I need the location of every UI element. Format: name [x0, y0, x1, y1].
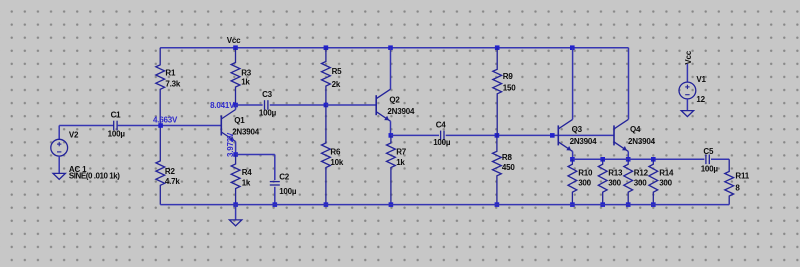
- svg-text:2k: 2k: [332, 80, 341, 89]
- svg-text:2N3904: 2N3904: [628, 137, 656, 146]
- junction: [651, 157, 656, 162]
- svg-text:C1: C1: [111, 111, 122, 120]
- svg-text:12: 12: [696, 95, 705, 104]
- svg-text:300: 300: [659, 179, 672, 188]
- svg-text:R4: R4: [242, 168, 253, 177]
- svg-text:C2: C2: [279, 173, 290, 182]
- svg-text:C3: C3: [262, 90, 273, 99]
- node D: [389, 133, 394, 138]
- junction: [626, 202, 631, 207]
- svg-text:SINE(0 .010 1k): SINE(0 .010 1k): [69, 171, 120, 180]
- resistor R12: [624, 159, 649, 204]
- wire: [58, 126, 60, 140]
- svg-text:100µ: 100µ: [108, 129, 126, 138]
- junction: [600, 157, 605, 162]
- capacitor C5: [701, 147, 719, 174]
- svg-text:2N3904: 2N3904: [232, 127, 260, 136]
- node C (emitter Q1): [233, 152, 238, 157]
- wire: [236, 154, 275, 156]
- junction: [324, 103, 329, 108]
- resistor R9: [493, 48, 516, 136]
- wire Vcc rail: [160, 47, 628, 49]
- svg-text:Vcc: Vcc: [227, 36, 241, 45]
- svg-text:R2: R2: [165, 167, 176, 176]
- wire: [274, 155, 276, 181]
- svg-text:Q1: Q1: [234, 116, 245, 125]
- svg-text:100µ: 100µ: [701, 165, 719, 174]
- transistor Q4: [614, 119, 656, 159]
- ground main: [229, 220, 241, 226]
- resistor R10: [568, 159, 593, 204]
- svg-text:1k: 1k: [242, 179, 251, 188]
- wire: [270, 104, 326, 106]
- transistor Q1: [221, 105, 259, 155]
- wire rail corner to Q4 collector: [628, 48, 630, 120]
- node B (8.041V): [233, 103, 238, 108]
- resistor R8: [493, 135, 516, 204]
- svg-text:R7: R7: [396, 147, 407, 156]
- svg-text:150: 150: [503, 84, 516, 93]
- junction: [570, 45, 575, 50]
- resistor R4: [231, 155, 252, 205]
- junction: [324, 202, 329, 207]
- wire: [446, 134, 559, 136]
- capacitor C2: [270, 173, 297, 196]
- svg-text:4.7k: 4.7k: [165, 177, 181, 186]
- wire: [274, 187, 276, 205]
- svg-text:2N3904: 2N3904: [387, 107, 415, 116]
- svg-text:R12: R12: [634, 168, 649, 177]
- svg-text:300: 300: [578, 179, 591, 188]
- voltage source V1: [679, 75, 707, 104]
- junction: [570, 202, 575, 207]
- wire: [326, 104, 376, 106]
- svg-text:100µ: 100µ: [279, 187, 297, 196]
- node A (4.663V): [158, 123, 163, 128]
- resistor R2: [156, 126, 181, 205]
- svg-text:C4: C4: [436, 120, 447, 129]
- svg-text:R6: R6: [330, 147, 341, 156]
- wire: [686, 64, 688, 82]
- resistor R5: [322, 48, 343, 105]
- wire V2 to ground: [58, 156, 60, 173]
- svg-text:300: 300: [608, 179, 621, 188]
- junction: [495, 45, 500, 50]
- wire to ground: [235, 205, 237, 220]
- svg-text:4.663V: 4.663V: [153, 115, 178, 124]
- svg-text:100µ: 100µ: [259, 109, 277, 118]
- svg-text:10k: 10k: [330, 158, 343, 167]
- svg-text:R8: R8: [502, 153, 513, 162]
- svg-text:8.041V: 8.041V: [210, 101, 235, 110]
- wire: [572, 158, 704, 160]
- node E (Q3 emitter): [570, 157, 575, 162]
- wire: [59, 125, 113, 127]
- junction: [626, 157, 631, 162]
- svg-text:Q4: Q4: [630, 125, 641, 134]
- ground V1: [681, 111, 693, 117]
- svg-text:Q2: Q2: [389, 95, 400, 104]
- wire: [558, 134, 614, 136]
- svg-text:C5: C5: [703, 147, 714, 156]
- resistor R11: [725, 159, 750, 204]
- transistor Q2: [376, 48, 415, 136]
- wire ground rail: [160, 204, 729, 206]
- junction: [233, 45, 238, 50]
- svg-text:450: 450: [502, 163, 515, 172]
- wire: [236, 104, 263, 106]
- capacitor C3: [259, 90, 277, 118]
- wire: [391, 134, 439, 136]
- ground V2: [53, 173, 65, 179]
- svg-text:Vcc: Vcc: [684, 50, 693, 64]
- svg-text:1k: 1k: [396, 158, 405, 167]
- junction: [389, 202, 394, 207]
- junction: [495, 133, 500, 138]
- resistor R13: [598, 159, 623, 204]
- svg-text:1k: 1k: [241, 77, 250, 86]
- svg-text:R10: R10: [578, 168, 593, 177]
- wire V1 to ground: [686, 99, 688, 111]
- transistor Q3: [558, 48, 597, 160]
- svg-text:8: 8: [735, 183, 740, 192]
- voltage source V2: [51, 131, 87, 174]
- resistor R7: [387, 135, 407, 204]
- junction: [273, 202, 278, 207]
- svg-text:V1: V1: [696, 75, 706, 84]
- junction: [233, 202, 238, 207]
- svg-text:R5: R5: [332, 67, 343, 76]
- svg-text:V2: V2: [69, 131, 79, 140]
- capacitor C4: [433, 120, 451, 147]
- svg-text:R13: R13: [608, 168, 623, 177]
- svg-text:R3: R3: [241, 68, 252, 77]
- junction: [550, 133, 555, 138]
- junction: [651, 202, 656, 207]
- svg-text:R1: R1: [165, 68, 176, 77]
- resistor R1: [156, 48, 181, 126]
- svg-text:300: 300: [634, 179, 647, 188]
- junction: [600, 202, 605, 207]
- wire: [711, 158, 729, 160]
- resistor R6: [322, 105, 344, 205]
- svg-text:100µ: 100µ: [433, 138, 451, 147]
- svg-text:R14: R14: [659, 168, 674, 177]
- junction: [495, 202, 500, 207]
- junction: [388, 45, 393, 50]
- junction: [324, 45, 329, 50]
- svg-text:R11: R11: [735, 172, 749, 181]
- wire: [117, 125, 221, 127]
- svg-text:Q3: Q3: [572, 125, 583, 134]
- resistor R3: [231, 48, 252, 105]
- resistor R14: [649, 159, 674, 204]
- svg-text:R9: R9: [503, 72, 514, 81]
- capacitor C1: [108, 111, 126, 139]
- svg-text:7.3k: 7.3k: [165, 79, 181, 88]
- svg-text:2N3904: 2N3904: [570, 137, 598, 146]
